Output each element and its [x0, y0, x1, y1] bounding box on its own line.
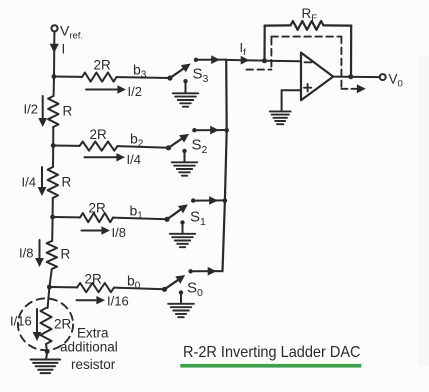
- wire S2 contact to bus: [196, 129, 226, 131]
- svg-text:2R: 2R: [90, 127, 108, 142]
- resistor R (top, between b3 and b2 nodes): [53, 77, 55, 97]
- svg-text:I: I: [62, 42, 66, 57]
- ground (op-amp non-inverting input): [270, 110, 291, 112]
- switch S1 contact dot: [191, 198, 195, 202]
- wire 2R to switch S1 pivot: [113, 218, 167, 220]
- current arrow I/16 (branch): [77, 299, 97, 301]
- svg-text:I/2: I/2: [24, 102, 38, 117]
- node at op-amp inverting input: [262, 58, 267, 63]
- summing bus wire: [223, 60, 227, 271]
- node b2 junction on ladder rail: [51, 143, 56, 148]
- resistor RF: [265, 24, 291, 26]
- switch S0 pivot dot: [162, 287, 167, 292]
- resistor R (middle, between b2 and b1 nodes): [52, 146, 54, 168]
- op-amp inverting input marker: [305, 61, 312, 63]
- title green underline: [180, 364, 361, 368]
- switch S0 arm: [165, 279, 180, 290]
- switch S2 contact dot: [192, 128, 196, 132]
- current arrow I/2: [42, 96, 44, 119]
- node b3 junction on ladder rail: [52, 74, 57, 79]
- current arrow I/2 (branch): [86, 89, 121, 91]
- node b0 junction on ladder rail: [47, 285, 52, 290]
- wire b0 node down to 2R terminator: [48, 287, 50, 308]
- ground (below S2): [184, 151, 186, 161]
- dashed output current arrow: [341, 88, 357, 90]
- node at op-amp output: [348, 74, 353, 79]
- switch S1 pivot dot: [164, 217, 169, 222]
- wire non-inverting input to ground: [282, 90, 301, 110]
- op-amp U1: [301, 53, 333, 101]
- dashed highlight circle around extra resistor: [18, 298, 73, 350]
- resistor R (bottom, between b1 and b0 nodes): [51, 217, 53, 241]
- svg-text:additional: additional: [60, 340, 118, 355]
- resistor 2R (bit b2 branch): [53, 145, 79, 147]
- svg-text:R: R: [62, 175, 72, 190]
- ground (below S0): [180, 293, 182, 303]
- wire inverting input: [265, 60, 302, 62]
- svg-text:I/4: I/4: [127, 152, 141, 167]
- ground (below S1): [182, 223, 184, 233]
- switch S3 contact dot: [194, 58, 198, 62]
- wire bus to op-amp inverting input (If): [226, 59, 264, 62]
- wire Vref to node b3: [53, 32, 55, 77]
- dashed current path into virtual ground: [247, 69, 272, 71]
- bus junction dot (row b1): [223, 198, 228, 203]
- switch S2 arm: [169, 138, 184, 148]
- dashed current path down to output: [340, 37, 342, 87]
- svg-text:Extra: Extra: [77, 326, 109, 341]
- svg-text:R-2R Inverting Ladder DAC: R-2R Inverting Ladder DAC: [183, 344, 361, 361]
- wire feedback right vertical: [350, 26, 352, 77]
- current arrow I/16 (terminator): [36, 309, 38, 333]
- switch S3 pivot dot: [167, 75, 172, 80]
- svg-text:R: R: [63, 104, 73, 119]
- svg-text:2R: 2R: [54, 317, 72, 332]
- dashed current path over op-amp: [271, 36, 341, 38]
- junction dot above bottom ground: [45, 349, 50, 354]
- svg-text:2R: 2R: [89, 201, 107, 216]
- node b1 junction on ladder rail: [50, 215, 55, 220]
- switch S0 contact dot: [188, 269, 192, 273]
- op-amp non-inverting input marker: [304, 87, 311, 89]
- current arrow I/4: [41, 167, 43, 188]
- current arrow I/4 (branch): [85, 156, 118, 158]
- svg-text:I/4: I/4: [22, 175, 36, 190]
- ground (below S3): [185, 81, 187, 92]
- ground (bottom of ladder): [46, 352, 47, 359]
- current arrow I: [50, 44, 59, 53]
- switch S1 arm: [167, 208, 183, 219]
- current arrow I/8: [39, 240, 41, 259]
- ground contact dot (S1 lower throw): [180, 220, 184, 224]
- resistor 2R (bit b3 branch): [54, 76, 82, 78]
- switch S3 arm: [170, 67, 185, 78]
- wire S3 contact to bus: [198, 59, 226, 61]
- ground contact dot (S0 lower throw): [179, 290, 183, 294]
- wire feedback left vertical: [263, 26, 265, 61]
- wire S0 contact to bus: [193, 270, 223, 272]
- ground contact dot (S3 lower throw): [183, 79, 187, 83]
- bus junction dot (row b2): [224, 128, 229, 133]
- wire S1 contact to bus: [195, 199, 225, 201]
- wire 2R to switch S3 pivot: [117, 76, 171, 79]
- svg-text:I/16: I/16: [10, 314, 32, 329]
- terminal V0: [380, 74, 386, 80]
- resistor 2R terminator (extra additional resistor): [40, 308, 51, 344]
- ground contact dot (S2 lower throw): [182, 149, 186, 153]
- svg-text:I/2: I/2: [128, 84, 142, 99]
- wire op-amp output to V0: [333, 76, 380, 79]
- faint scan smudge right edge: [418, 56, 429, 366]
- svg-text:2R: 2R: [85, 272, 103, 287]
- current arrow I/8 (branch): [82, 230, 102, 232]
- svg-text:resistor: resistor: [71, 357, 116, 372]
- svg-text:R: R: [61, 247, 71, 262]
- terminal Vref: [51, 25, 57, 31]
- svg-text:2R: 2R: [94, 58, 112, 73]
- resistor 2R (bit b1 branch): [53, 216, 80, 218]
- svg-text:I/8: I/8: [112, 225, 126, 240]
- wire 2R to switch S0 pivot: [114, 288, 165, 290]
- resistor 2R (bit b0 branch): [49, 286, 77, 288]
- switch S2 pivot dot: [166, 145, 171, 150]
- wire 2R to switch S2 pivot: [118, 146, 169, 148]
- svg-text:I/16: I/16: [107, 294, 129, 309]
- svg-text:I/8: I/8: [19, 246, 33, 261]
